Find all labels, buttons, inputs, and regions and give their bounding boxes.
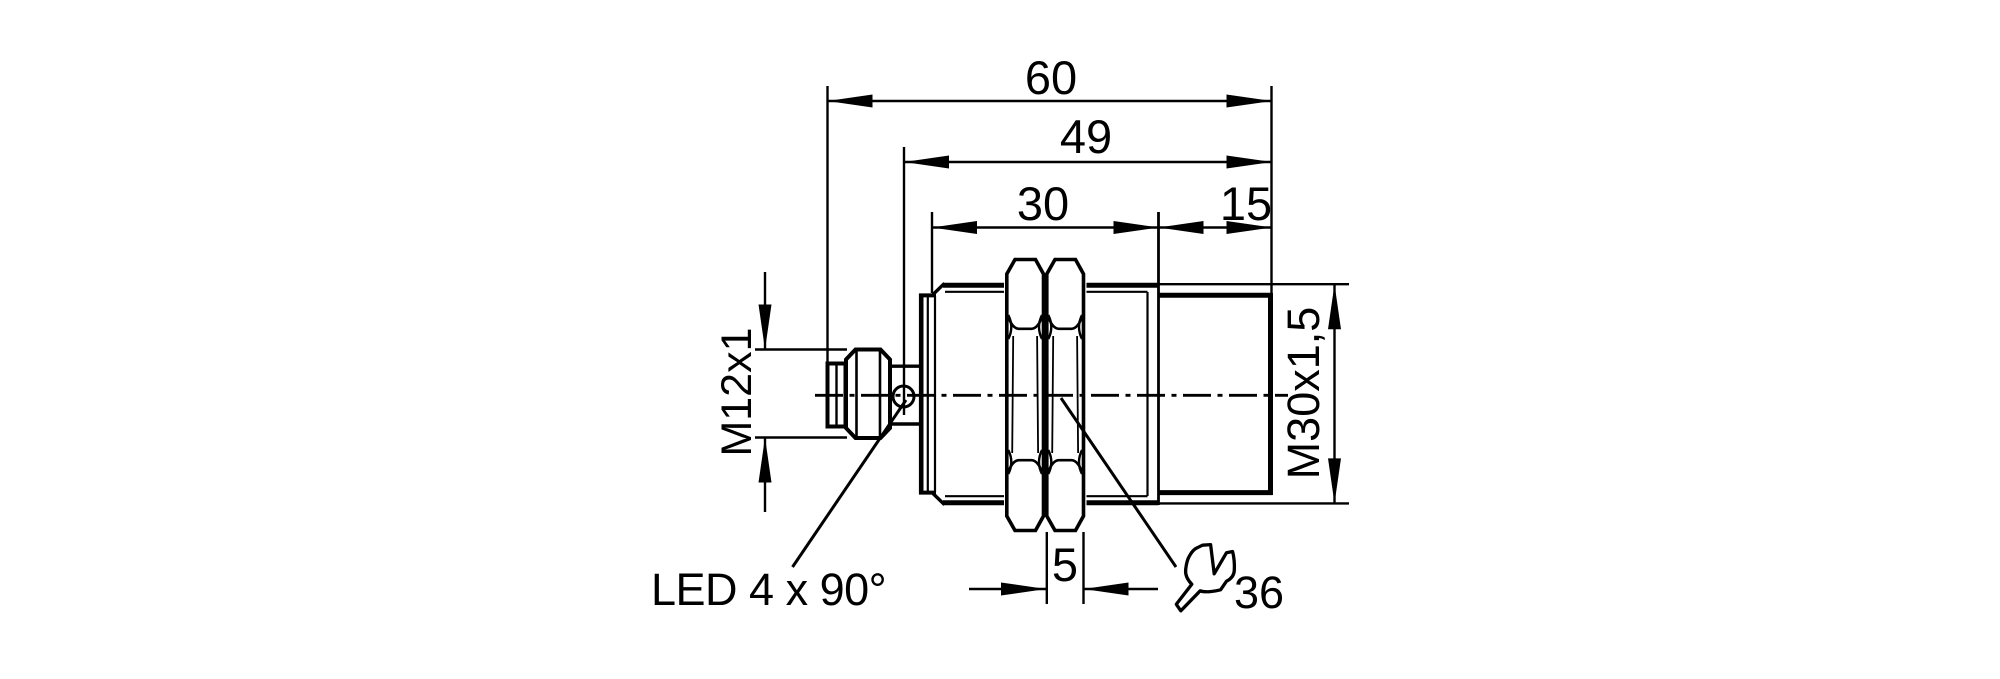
svg-text:M30x1,5: M30x1,5 — [1278, 307, 1329, 480]
svg-text:LED 4 x 90°: LED 4 x 90° — [651, 564, 886, 615]
svg-text:M12x1: M12x1 — [713, 327, 761, 456]
svg-text:5: 5 — [1052, 538, 1078, 591]
svg-text:15: 15 — [1220, 177, 1272, 230]
svg-text:36: 36 — [1234, 567, 1284, 618]
svg-text:49: 49 — [1060, 110, 1112, 163]
svg-text:30: 30 — [1017, 177, 1069, 230]
svg-text:60: 60 — [1025, 51, 1077, 104]
